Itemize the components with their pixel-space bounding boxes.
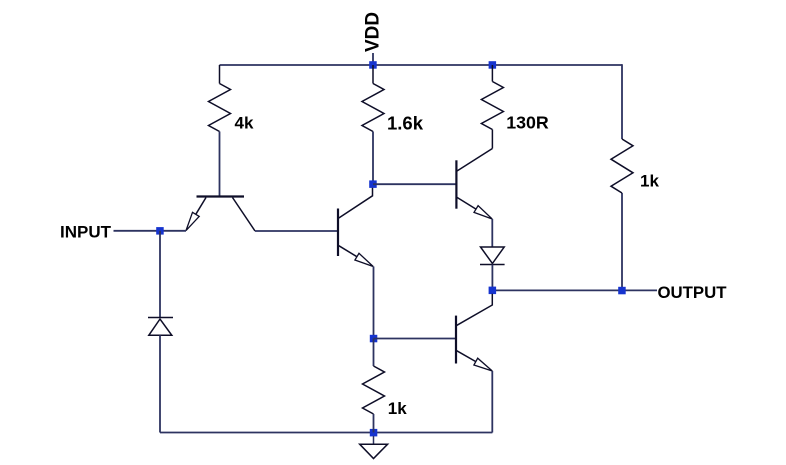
wire right rail lower segment	[621, 193, 623, 291]
node OUTPUT junction	[618, 287, 626, 295]
transistor Q2 emitter arrow	[355, 253, 373, 266]
transistor Q3 emitter arrow	[474, 206, 492, 219]
ground symbol stub	[373, 436, 375, 444]
transistor Q1 emitter	[196, 198, 206, 215]
transistor Q2 collector	[339, 188, 373, 218]
node 130R top junction	[489, 61, 497, 68]
label OUTPUT	[658, 283, 728, 302]
transistor Q4 emitter	[456, 350, 476, 361]
resistor R2 (1.6k) top stub	[372, 65, 374, 84]
resistor R3 bottom stub	[491, 130, 493, 149]
wire R2 to node B	[372, 132, 374, 185]
resistor R1 (4k) body	[209, 84, 231, 132]
node B junction (Q2 collector / Q3 base)	[369, 180, 377, 188]
transistor Q4 emitter arrow	[474, 358, 492, 371]
label 1k (R5)	[640, 172, 659, 191]
transistor Q4 collector	[456, 294, 492, 326]
diode D2 triangle	[481, 247, 505, 264]
diode D2 cathode bar	[480, 264, 505, 266]
resistor R4 (1k) body	[363, 366, 385, 414]
svg-text:130R: 130R	[506, 113, 549, 133]
label 4k	[235, 114, 254, 133]
wire right rail upper segment	[621, 64, 623, 139]
label 1k (R4)	[388, 399, 407, 418]
transistor Q1 emitter arrow	[186, 212, 199, 230]
wire output stub to label	[622, 289, 657, 291]
svg-text:VDD: VDD	[363, 12, 384, 52]
transistor Q1 collector	[233, 198, 256, 232]
wire top VDD rail	[220, 64, 623, 66]
transistor Q3 base bar	[455, 160, 457, 208]
wire output rail	[492, 289, 622, 291]
wire node B to Q3 base	[373, 183, 456, 185]
transistor Q2 base bar	[337, 209, 339, 257]
label 1.6k	[387, 113, 424, 134]
wire VDD stub	[372, 53, 374, 65]
wire Q3 emitter to D2	[491, 219, 493, 247]
resistor R4 bottom stub	[373, 414, 375, 433]
transistor Q3 emitter	[456, 197, 476, 209]
node INPUT junction	[156, 227, 164, 235]
svg-text:1.6k: 1.6k	[387, 113, 424, 134]
node output-left junction	[489, 287, 497, 295]
svg-text:4k: 4k	[235, 114, 254, 133]
svg-text:OUTPUT: OUTPUT	[658, 283, 728, 302]
transistor Q4 base bar	[455, 316, 457, 364]
diode D1 triangle	[149, 319, 172, 335]
label INPUT	[60, 223, 112, 242]
resistor R3 (130R) top stub	[491, 65, 493, 82]
node E junction (Q2 emitter / Q4 base)	[370, 335, 378, 343]
svg-text:INPUT: INPUT	[60, 223, 112, 242]
resistor R5 (1k) body	[611, 139, 633, 193]
transistor Q2 emitter	[339, 246, 357, 257]
transistor Q1 base bar	[197, 195, 245, 197]
diode D1 cathode bar	[148, 317, 173, 319]
transistor Q3 collector	[457, 149, 492, 172]
ground symbol	[360, 444, 388, 458]
wire D2 to output node	[491, 265, 493, 291]
wire D1 to ground rail	[159, 335, 161, 432]
wire INPUT node to D1	[159, 231, 161, 318]
label 130R	[506, 113, 549, 133]
node VDD junction	[369, 61, 377, 68]
resistor R3 (130R) body	[481, 82, 503, 130]
wire Q2 emitter to node E	[373, 267, 375, 339]
svg-text:1k: 1k	[640, 172, 659, 191]
wire node E to Q4 base	[374, 338, 457, 340]
wire Q4 emitter to ground rail	[491, 371, 493, 433]
node ground junction	[370, 429, 378, 437]
wire INPUT to Q1 emitter	[114, 230, 187, 232]
svg-text:1k: 1k	[388, 399, 407, 418]
wire R1 to Q1 base	[219, 132, 221, 197]
power label VDD	[363, 12, 384, 52]
wire bottom ground rail	[160, 432, 492, 434]
resistor R4 (1k) top stub	[373, 339, 375, 367]
wire Q1 collector to Q2 base	[255, 230, 338, 232]
resistor R1 (4k) top stub	[219, 65, 221, 84]
resistor R2 (1.6k) body	[362, 84, 384, 132]
